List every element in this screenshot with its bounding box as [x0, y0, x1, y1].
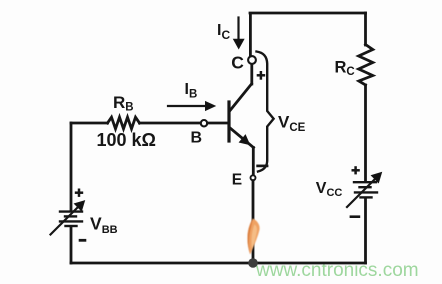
resistor RC zigzag	[359, 45, 373, 86]
plus sign near VCC	[352, 166, 360, 174]
svg-text:C: C	[231, 53, 244, 73]
battery VCC plates	[354, 182, 377, 197]
transistor Q1 emitter diagonal with arrow	[230, 128, 254, 148]
wire left lower (corner to Vbb)	[70, 227, 73, 263]
svg-text:IB: IB	[185, 81, 198, 101]
svg-text:IC: IC	[217, 22, 230, 42]
wire collector (diagonal top to node C)	[250, 64, 253, 84]
wire base middle (RB to node B)	[140, 122, 201, 125]
minus sign near E	[256, 165, 268, 168]
junction dot (emitter / bottom wire)	[248, 258, 258, 268]
svg-text:VBB: VBB	[90, 214, 118, 237]
emitter arrowhead	[240, 135, 250, 144]
plus sign near VBB	[75, 189, 83, 197]
wire right lower (Vcc to bottom corner)	[364, 199, 367, 264]
wire right upper (to Rc top)	[364, 13, 367, 45]
wire base left (to resistor RB)	[71, 122, 108, 125]
wire base right (node B to transistor base)	[208, 122, 228, 125]
minus sign near VCC	[350, 215, 361, 218]
svg-text:100 kΩ: 100 kΩ	[97, 130, 156, 150]
wire left upper (Vbb to base wire)	[70, 123, 73, 211]
minus sign near VBB	[79, 239, 87, 242]
battery VBB variable arrow	[51, 201, 85, 235]
current arrow IB	[168, 102, 215, 111]
svg-text:B: B	[191, 130, 203, 147]
resistor RB zigzag	[108, 117, 140, 129]
svg-text:RB: RB	[113, 93, 134, 114]
wire emitter lower (node E to bottom junction)	[252, 181, 255, 263]
wire bottom horizontal	[71, 262, 366, 265]
transistor Q1 base bar	[227, 102, 230, 141]
node E terminal circle	[251, 175, 256, 180]
svg-text:VCC: VCC	[316, 180, 343, 199]
wire right middle (Rc to Vcc)	[364, 85, 367, 181]
brace VCE	[257, 52, 274, 172]
plus sign near C	[257, 71, 266, 80]
svg-text:E: E	[232, 171, 242, 188]
current arrow IC	[234, 18, 244, 49]
transistor Q1 collector diagonal	[230, 84, 252, 111]
wire emitter (diagonal to node E)	[252, 148, 255, 176]
battery VCC variable arrow	[347, 173, 382, 208]
svg-text:RC: RC	[335, 59, 355, 79]
wire top horizontal	[250, 12, 366, 15]
flame artifact (orange)	[247, 219, 259, 255]
wire collector upper (node C to top wire)	[249, 14, 252, 56]
svg-text:VCE: VCE	[278, 113, 306, 135]
node C terminal circle	[248, 56, 256, 64]
node B terminal circle	[201, 120, 207, 126]
battery VBB plates	[60, 212, 82, 226]
